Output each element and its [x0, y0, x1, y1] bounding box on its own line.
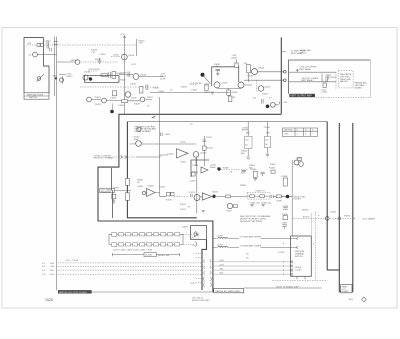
svg-text:L1052: L1052 — [180, 142, 186, 144]
parts list dashed box — [339, 70, 354, 88]
resistor R1040 — [228, 96, 232, 102]
capacitor C1052 — [202, 140, 206, 142]
svg-text:C1025: C1025 — [130, 84, 137, 86]
svg-text:(SEE NOTE): (SEE NOTE) — [325, 77, 337, 79]
resistor R1038 — [227, 90, 231, 95]
svg-text:R1082: R1082 — [223, 168, 230, 170]
wire - sig out — [289, 81, 336, 83]
resistor R1056 — [126, 179, 130, 186]
svg-text:Q1047: Q1047 — [265, 87, 272, 89]
power dashed row 2 — [58, 265, 202, 267]
test point blob 3 — [201, 73, 205, 77]
wire stage row — [155, 193, 166, 197]
blob 4 — [266, 105, 270, 109]
capacitor C1 — [47, 42, 49, 49]
svg-text:DIAG 2: DIAG 2 — [300, 51, 307, 54]
svg-text:C1060: C1060 — [137, 186, 144, 188]
ground 2 — [216, 74, 220, 76]
node blob delay — [286, 195, 290, 199]
delay row end links — [109, 234, 183, 244]
termination box — [191, 226, 207, 240]
transistor Q1027 — [140, 97, 145, 102]
resistor R1024 — [112, 72, 116, 79]
wire +12V dashed rail — [27, 44, 137, 46]
resistor R1073 — [226, 195, 231, 198]
main box inner outline — [127, 121, 327, 123]
wire row — [119, 73, 133, 75]
svg-text:L1099: L1099 — [217, 245, 223, 247]
resistor R1054 — [192, 172, 196, 176]
row labels right — [219, 260, 224, 274]
connector pins — [204, 260, 212, 288]
svg-text:W1090: W1090 — [302, 210, 309, 212]
lamp DS1 — [33, 52, 38, 57]
svg-text:PARTIAL A11 MAIN BOARD: PARTIAL A11 MAIN BOARD — [216, 290, 242, 293]
bus heavy vertical — [280, 37, 282, 114]
main box outer outline — [98, 114, 281, 292]
svg-text:R1027: R1027 — [147, 97, 154, 99]
wire along bottom — [92, 291, 214, 293]
test point blob — [89, 77, 92, 80]
wire main left bus — [54, 37, 56, 97]
svg-text:C1092: C1092 — [321, 92, 328, 94]
svg-text:R1088: R1088 — [282, 176, 289, 178]
stage box outline — [191, 160, 209, 177]
svg-text:R1089: R1089 — [282, 214, 289, 216]
wire emitter row — [217, 88, 241, 90]
svg-text:SWITCH: SWITCH — [295, 256, 303, 258]
tek diamond — [362, 297, 367, 302]
power +75V arrow — [123, 36, 126, 41]
resistor R1076 — [234, 205, 238, 208]
table of values — [282, 128, 317, 136]
svg-text:+12V: +12V — [321, 90, 326, 92]
svg-text:R1067: R1067 — [270, 164, 277, 166]
wire + sig out — [289, 69, 336, 72]
narrow box bottom — [339, 291, 353, 293]
pin arc 2 — [195, 241, 197, 247]
rail A corner to box — [327, 269, 339, 271]
svg-text:R1029: R1029 — [134, 104, 141, 106]
svg-text:C1023: C1023 — [110, 98, 117, 100]
transistor Q1076 — [227, 203, 232, 208]
svg-text:C1012: C1012 — [45, 41, 52, 43]
svg-text:7A26: 7A26 — [45, 298, 53, 302]
svg-text:R1041: R1041 — [232, 58, 239, 60]
resistor in dbox 2 — [260, 195, 265, 198]
narrow box label — [341, 285, 352, 293]
svg-text:TO VERT AMP LOWER: TO VERT AMP LOWER — [240, 245, 262, 248]
svg-text:-50V: -50V — [50, 274, 55, 276]
svg-text:Q1035: Q1035 — [222, 83, 229, 85]
resistor R1022 — [101, 74, 108, 77]
switch wafer contact — [37, 77, 41, 81]
svg-text:30MH: 30MH — [210, 167, 216, 169]
wire dotted to right — [316, 97, 371, 99]
op-amp U1068 — [147, 189, 156, 197]
ground 7 — [246, 157, 250, 159]
svg-text:Q1068: Q1068 — [148, 186, 155, 188]
pin arc 1 — [195, 231, 197, 237]
svg-text:R1022: R1022 — [95, 104, 102, 106]
svg-text:T1087: T1087 — [276, 201, 283, 203]
svg-text:R1074: R1074 — [212, 192, 219, 194]
transistor Q1018 — [122, 54, 128, 60]
capacitor C2 — [49, 48, 51, 52]
power dashed row 4 — [58, 273, 202, 275]
svg-text:C1050: C1050 — [168, 153, 175, 155]
svg-text:C1086 .001: C1086 .001 — [261, 202, 272, 204]
resistor R1070 — [167, 192, 171, 196]
ground 6 — [254, 178, 258, 180]
dashed rail +12V dcpl — [293, 217, 355, 219]
svg-text:TO VERT AMP UPPER: TO VERT AMP UPPER — [240, 236, 261, 239]
parts right of Q1049 — [262, 99, 280, 105]
svg-text:+12V: +12V — [240, 173, 245, 175]
wire op-amp out down — [195, 157, 198, 213]
dashes to connector — [183, 234, 194, 244]
capacitor C1090 — [282, 225, 287, 229]
svg-text:C1071: C1071 — [180, 209, 187, 211]
connector strip columns — [202, 240, 207, 291]
svg-text:C1058: C1058 — [192, 165, 199, 167]
wire mid row — [150, 92, 230, 94]
svg-text:C1051: C1051 — [165, 134, 172, 136]
dashed +5V stub — [191, 238, 200, 240]
node blob — [212, 195, 215, 198]
pickoff circle on rail — [325, 217, 329, 221]
power rows right of connector — [213, 262, 290, 274]
svg-text:ATTEN: ATTEN — [242, 129, 249, 132]
svg-text:Q1018: Q1018 — [128, 55, 135, 57]
svg-text:R1080: R1080 — [269, 167, 276, 169]
svg-text:BOARD: BOARD — [342, 290, 350, 293]
svg-text:DELAY LINE: DELAY LINE — [158, 254, 170, 257]
switch S1 vertical mode box outline — [24, 38, 49, 94]
svg-text:R1084: R1084 — [240, 185, 247, 187]
trim stack under label — [112, 194, 116, 199]
svg-text:Q1050: Q1050 — [130, 144, 137, 146]
wire through dbox — [247, 195, 271, 197]
svg-text:R1032: R1032 — [181, 87, 188, 89]
wire to delay line — [274, 195, 292, 197]
signal line 2 — [213, 246, 298, 248]
svg-text:R1052: R1052 — [207, 148, 214, 150]
svg-text:VERT BEAM: VERT BEAM — [299, 68, 311, 71]
switch S1 label box — [24, 93, 49, 99]
svg-text:Q1044: Q1044 — [258, 68, 265, 70]
block outline delay driver — [85, 75, 120, 82]
node blob stage2 — [217, 167, 220, 170]
svg-text:SWITCH: SWITCH — [29, 97, 37, 99]
diode in termination box — [195, 233, 199, 237]
ground — [98, 58, 102, 63]
svg-text:ELH: ELH — [349, 299, 353, 301]
svg-text:+12V: +12V — [190, 283, 195, 285]
switch arm — [37, 74, 45, 82]
transistor Q1032 — [125, 92, 131, 98]
pin tick on bus — [282, 51, 286, 53]
svg-text:C1094: C1094 — [330, 212, 337, 214]
wire diagonal — [204, 76, 211, 84]
svg-text:U1790: U1790 — [278, 252, 285, 254]
svg-text:C1052: C1052 — [206, 137, 213, 139]
svg-text:+12V: +12V — [27, 43, 32, 45]
wire stage out — [214, 195, 247, 197]
svg-text:LOGIC: LOGIC — [295, 269, 302, 271]
svg-text:-15V: -15V — [50, 270, 55, 272]
wire drop — [159, 97, 161, 196]
resistor R1088 — [283, 178, 287, 186]
resistor R1089 — [283, 216, 287, 220]
svg-text:R1037: R1037 — [204, 92, 211, 94]
svg-text:+15V: +15V — [50, 266, 55, 268]
svg-text:R1010: R1010 — [67, 76, 74, 78]
input dashed 2.5V — [114, 156, 137, 158]
capacitor C1028 — [128, 72, 130, 78]
svg-text:1.5K: 1.5K — [91, 52, 96, 54]
svg-text:DL1087: DL1087 — [294, 199, 302, 201]
op-amp U1073 — [202, 193, 211, 200]
connector pin at bus top — [54, 41, 58, 44]
bottom row transistor Q1023 — [102, 98, 107, 103]
svg-text:VALUES: VALUES — [340, 80, 348, 83]
svg-text:Q1067: Q1067 — [296, 158, 303, 160]
test point blob 2 — [110, 110, 114, 114]
svg-text:+50V: +50V — [219, 260, 224, 262]
op-amp U1058 — [201, 167, 208, 173]
svg-text:FROM SW: FROM SW — [101, 191, 111, 193]
wire links bottom row — [92, 100, 152, 101]
delay line row 1 — [109, 233, 183, 237]
svg-text:R1025: R1025 — [120, 80, 127, 82]
svg-text:16.9K: 16.9K — [160, 79, 166, 81]
svg-text:C1066: C1066 — [264, 127, 271, 129]
svg-text:L1026: L1026 — [131, 98, 137, 100]
resistor R1057 — [126, 193, 130, 201]
power dashed row 1 — [58, 262, 202, 264]
capacitor C1087 — [272, 195, 274, 198]
resistor in dbox 1 — [250, 195, 255, 198]
pin circle B — [284, 79, 287, 82]
svg-text:SW POS: SW POS — [284, 130, 293, 132]
svg-text:R1021: R1021 — [95, 97, 102, 99]
svg-text:MODE PLUG ONLY: MODE PLUG ONLY — [192, 300, 211, 302]
box bottom marks — [297, 276, 305, 279]
svg-text:-15V: -15V — [219, 269, 224, 271]
capacitor C1051 — [161, 133, 163, 137]
wire center vertical — [123, 41, 125, 114]
svg-text:R1016: R1016 — [95, 59, 102, 61]
transistor Q1036 — [238, 82, 244, 88]
svg-text:R1057: R1057 — [114, 188, 121, 190]
coil L1098 — [218, 237, 228, 238]
node junction — [55, 77, 57, 79]
wire curve — [200, 195, 202, 198]
bus vertical right — [291, 160, 293, 236]
svg-text:FROM CH 2 PREAMP: FROM CH 2 PREAMP — [94, 157, 115, 160]
ground 5 — [202, 210, 206, 212]
transistor Q1047 — [258, 86, 264, 92]
svg-text:+12V: +12V — [131, 64, 136, 66]
grounds under dbox — [250, 205, 265, 207]
power line rows left labels — [42, 263, 55, 276]
diode CR1 — [59, 78, 63, 82]
svg-text:C1032: C1032 — [191, 90, 198, 92]
label +12V decoupled — [88, 70, 98, 72]
svg-text:R1085 7.5: R1085 7.5 — [256, 190, 266, 192]
dimension line — [112, 253, 179, 256]
svg-text:DS1016: DS1016 — [71, 60, 79, 62]
svg-text:R1062: R1062 — [250, 169, 257, 171]
label box volts/div — [100, 188, 114, 193]
wire vertical drop left — [112, 168, 113, 218]
circled ref — [137, 127, 141, 131]
svg-text:C1085 .001: C1085 .001 — [249, 202, 260, 204]
ground 8 — [266, 155, 270, 157]
svg-text:R1058: R1058 — [192, 172, 199, 174]
dark board bar — [58, 290, 92, 293]
capacitor C1062 — [261, 172, 265, 176]
svg-text:C1028: C1028 — [121, 72, 128, 74]
svg-text:C1044: C1044 — [247, 76, 254, 78]
svg-text:C1016: C1016 — [100, 54, 107, 56]
delay line label box — [144, 253, 156, 257]
box feedback loop — [212, 67, 239, 86]
power dashed row 3 — [58, 269, 202, 271]
inner right edge — [326, 122, 328, 270]
op-amp U1050 — [177, 149, 188, 158]
svg-text:L1091 L1092 L1093 L1094 L1: L1091 L1092 L1093 L1094 L1095 L1096 — [113, 250, 153, 252]
label +12V dcpl 2 — [190, 84, 197, 86]
transistor Q1053 — [193, 152, 199, 158]
resistor R1037 — [205, 84, 208, 90]
svg-text:VERT OUTPUT AMP: VERT OUTPUT AMP — [290, 95, 312, 98]
resistor R1026 — [122, 100, 128, 103]
svg-text:SHOWN IN THIS STATE: SHOWN IN THIS STATE — [240, 220, 263, 223]
dashed box matched pair — [247, 192, 270, 199]
interface tall box — [291, 236, 312, 276]
capacitor C1060 — [242, 170, 247, 172]
connector J1 — [37, 43, 40, 46]
svg-text:PARTIAL A10 VERT BOARD: PARTIAL A10 VERT BOARD — [59, 291, 87, 294]
svg-text:L1098: L1098 — [217, 236, 223, 238]
wire from label box — [114, 190, 131, 192]
capacitor C1033 — [146, 85, 148, 91]
svg-text:+15V: +15V — [219, 264, 224, 266]
svg-text:C1030: C1030 — [158, 91, 165, 93]
svg-text:+50 V UNREG: +50 V UNREG — [362, 218, 376, 220]
output box top edge — [289, 60, 371, 94]
capacitor C1088 — [283, 208, 288, 210]
coil L1099 — [218, 246, 228, 247]
wire Q1050 collector — [141, 143, 196, 145]
svg-text:-50V: -50V — [219, 273, 224, 275]
svg-text:R1038: R1038 — [232, 92, 239, 94]
svg-text:C1054: C1054 — [190, 181, 197, 183]
transistor Q1050 — [136, 141, 142, 147]
svg-text:R1047: R1047 — [262, 94, 269, 96]
svg-text:Q1053: Q1053 — [200, 153, 207, 155]
svg-text:+75V: +75V — [120, 34, 125, 36]
capacitor C1073 — [191, 194, 193, 197]
bottom label box — [214, 289, 244, 293]
resistor R1062 — [253, 171, 257, 177]
transistor Q1014 — [83, 75, 88, 80]
transistor Q1049 — [270, 102, 275, 107]
wire to box pin A — [258, 71, 284, 73]
svg-text:C1088: C1088 — [282, 206, 289, 208]
capacitor C1022 — [109, 72, 111, 78]
pin stubs left of connector — [196, 254, 203, 283]
attenuator stack 1 box — [245, 136, 253, 148]
capacitor C1035 — [216, 69, 221, 73]
svg-text:C1055: C1055 — [180, 162, 187, 164]
rail vertical A — [338, 123, 340, 292]
ground 4 — [112, 199, 116, 204]
svg-text:BOARD: BOARD — [355, 86, 363, 89]
wire input to stage — [136, 155, 168, 157]
attenuator stack 2 box — [264, 136, 270, 147]
svg-text:DL1094: DL1094 — [145, 255, 153, 257]
bottom row transistor Q1021 — [87, 97, 92, 102]
transistor Q1028 — [133, 74, 139, 80]
pin crossing 1 — [121, 156, 127, 159]
transistor Q1044 — [252, 69, 258, 75]
wire +12 feed — [44, 54, 57, 56]
svg-text:R1077: R1077 — [226, 211, 233, 213]
resistor R1052 — [203, 146, 206, 151]
svg-text:+12V (DCPL): +12V (DCPL) — [190, 83, 202, 85]
resistor R1033 — [140, 87, 143, 94]
transistor Q1072 — [194, 195, 200, 201]
svg-text:+12V: +12V — [283, 102, 288, 104]
svg-text:(DCPL): (DCPL) — [303, 217, 310, 219]
lamp DS1016 — [75, 60, 80, 65]
assorted small labels — [45, 41, 351, 277]
svg-text:C1073: C1073 — [189, 192, 196, 194]
ground 3 — [211, 92, 215, 94]
resistor R1044 — [247, 65, 251, 73]
svg-text:R1071: R1071 — [180, 204, 187, 206]
resistor R1031 — [113, 91, 117, 96]
black title bar — [289, 94, 315, 97]
small parts left of list — [322, 74, 331, 83]
wire dashed stage2 out — [221, 169, 248, 171]
svg-text:R1096: R1096 — [344, 216, 351, 218]
svg-text:R1070: R1070 — [166, 200, 173, 202]
rail vertical B — [352, 123, 354, 292]
wire lower to pin B — [244, 79, 284, 81]
signal line 1 — [213, 237, 298, 239]
svg-text:R1030: R1030 — [153, 88, 160, 90]
svg-text:C1024: C1024 — [118, 105, 125, 107]
dashed enclosure — [272, 212, 327, 280]
pin circle A — [284, 71, 287, 74]
resistor R1087 — [276, 195, 281, 198]
arrowheads into box — [290, 261, 292, 276]
svg-text:NOTE: TO BOARD VIA P ○: NOTE: TO BOARD VIA P ○ — [276, 285, 301, 288]
wire lower dashed rail — [80, 86, 158, 88]
dashed vert branch — [256, 80, 258, 92]
delay line row 2 — [109, 243, 183, 247]
transistor Q1035 — [214, 82, 220, 88]
wire bottom right — [244, 287, 322, 289]
svg-text:+12V → P1091: +12V → P1091 — [65, 260, 80, 262]
svg-text:Q1028: Q1028 — [140, 75, 147, 77]
svg-text:R1090: R1090 — [182, 227, 189, 229]
svg-text:1.5K: 1.5K — [139, 43, 144, 45]
